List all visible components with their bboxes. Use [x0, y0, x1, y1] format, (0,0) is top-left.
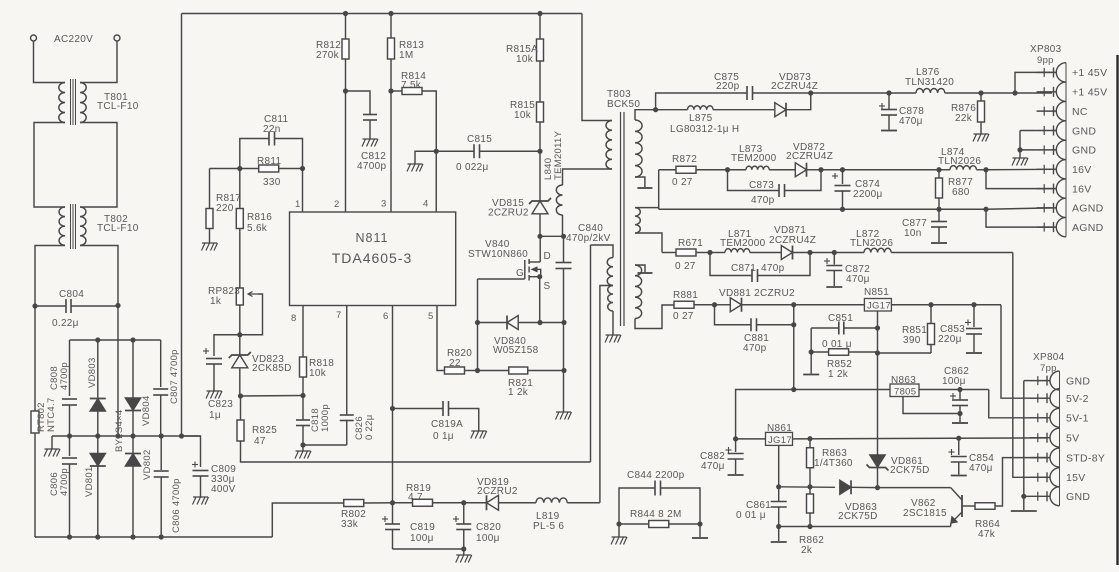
svg-text:LG80312-1μ H: LG80312-1μ H	[670, 124, 739, 135]
svg-text:C806 4700p: C806 4700p	[171, 478, 182, 533]
svg-text:3: 3	[381, 199, 387, 210]
15V rail	[810, 252, 864, 254]
wire AGND pin9	[986, 209, 1052, 227]
svg-text:L875: L875	[689, 113, 713, 124]
wire T801 right to T802	[80, 123, 117, 208]
resistor R802	[344, 500, 364, 507]
capacitor C878 electrolytic	[886, 90, 891, 95]
wire AGND pin8	[986, 208, 1052, 209]
capacitor C818	[302, 396, 304, 421]
diode VD861 zener	[870, 455, 886, 468]
svg-text:100μ: 100μ	[410, 533, 434, 544]
resistor R872	[659, 169, 676, 171]
capacitor C804	[35, 305, 66, 307]
svg-text:2k: 2k	[801, 545, 813, 556]
resistor R863	[809, 439, 811, 448]
svg-text:10k: 10k	[516, 54, 534, 65]
inductor L871	[710, 252, 725, 254]
capacitor C812	[346, 91, 371, 114]
node L874 right	[983, 167, 988, 172]
svg-text:JG17: JG17	[867, 301, 891, 312]
ground R844 right	[699, 524, 701, 537]
ground C820	[456, 555, 472, 563]
XP804 pin 3 5V-1	[1030, 417, 1050, 419]
svg-text:15V: 15V	[1066, 472, 1086, 484]
voltage regulator N861 JG17	[733, 436, 738, 441]
diode VD803	[97, 340, 99, 398]
capacitor C815	[436, 150, 474, 152]
wire XP804 GND bus	[1024, 380, 1030, 382]
svg-text:N851: N851	[864, 287, 889, 298]
secondary A top lead	[635, 110, 656, 120]
svg-text:JG17: JG17	[768, 435, 792, 446]
T803 feedback bottom ground	[612, 311, 614, 335]
capacitor C881 loop	[715, 305, 752, 325]
capacitor C861	[778, 487, 780, 502]
svg-text:C804: C804	[59, 289, 84, 300]
svg-text:TCL-F10: TCL-F10	[97, 223, 139, 234]
svg-text:TLN2026: TLN2026	[938, 156, 981, 167]
node R812 C812	[343, 88, 348, 93]
node C871 left	[707, 250, 712, 255]
wire AC left to T801	[34, 41, 66, 83]
svg-text:NTC4.7: NTC4.7	[46, 397, 57, 432]
XP803 body line	[1065, 63, 1067, 237]
inductor L819	[536, 498, 567, 503]
wire gate	[478, 278, 525, 280]
svg-text:2CZRU4Z: 2CZRU4Z	[769, 235, 816, 246]
node C875 VD873	[808, 90, 813, 95]
svg-text:2CK75D: 2CK75D	[890, 465, 930, 476]
inductor L873	[728, 169, 747, 171]
XP803 pin 7 16V	[1037, 188, 1057, 190]
svg-text:0 022μ: 0 022μ	[456, 162, 489, 173]
svg-text:470p: 470p	[751, 195, 775, 206]
diode VD873	[713, 109, 774, 111]
node C873 left	[725, 167, 730, 172]
svg-text:C851: C851	[828, 313, 853, 324]
svg-text:10k: 10k	[514, 110, 532, 121]
svg-text:C819: C819	[410, 522, 435, 533]
inductor L872	[864, 248, 891, 252]
resistor R852	[809, 349, 814, 354]
svg-text:6: 6	[383, 311, 389, 322]
svg-text:330: 330	[263, 177, 281, 188]
wire N861 output 5V rail	[793, 438, 1047, 439]
svg-text:2200μ: 2200μ	[853, 189, 883, 200]
svg-text:TEM2000: TEM2000	[720, 238, 766, 249]
svg-text:470p/2kV: 470p/2kV	[566, 233, 611, 244]
svg-text:GND: GND	[1066, 375, 1090, 387]
svg-text:AGND: AGND	[1072, 222, 1104, 234]
svg-text:4700p: 4700p	[59, 362, 70, 390]
ground C815 left	[415, 151, 436, 164]
node L840 C840	[561, 234, 566, 239]
potentiometer RP823	[239, 286, 241, 288]
secondary B bottom lead	[635, 233, 662, 253]
node VD871 out	[807, 250, 812, 255]
transformer T802 core	[70, 204, 72, 249]
svg-text:C815: C815	[467, 134, 492, 145]
wire to N851	[794, 304, 865, 306]
secondary C bottom lead	[635, 305, 674, 329]
B+ top rail	[182, 13, 583, 15]
resistor R815A	[539, 14, 541, 40]
svg-text:5V-2: 5V-2	[1066, 393, 1089, 405]
svg-text:XP803: XP803	[1030, 44, 1062, 55]
svg-text:1k: 1k	[210, 296, 222, 307]
resistor R876	[978, 90, 983, 95]
wire T802 left down to bridge	[35, 246, 65, 412]
wire pin8	[302, 306, 304, 358]
svg-text:1000p: 1000p	[320, 404, 331, 432]
resistor R815	[537, 102, 544, 122]
svg-text:100μ: 100μ	[476, 533, 500, 544]
svg-text:33k: 33k	[341, 519, 359, 530]
wire source node stub	[540, 322, 564, 324]
svg-text:22: 22	[449, 358, 461, 369]
ground R844 left	[618, 524, 620, 537]
capacitor C882 electrolytic	[735, 439, 737, 452]
resistor R816	[236, 209, 243, 229]
wire 5V-2 to XP804	[1001, 305, 1046, 398]
node R811 left	[237, 166, 242, 171]
svg-text:0 27: 0 27	[673, 311, 694, 322]
XP804 pin 7 GND	[1030, 495, 1050, 497]
svg-text:0 27: 0 27	[672, 177, 693, 188]
svg-text:C871: C871	[731, 263, 756, 274]
svg-text:470μ: 470μ	[846, 274, 870, 285]
svg-text:GND: GND	[1072, 145, 1096, 157]
capacitor C851	[811, 327, 839, 329]
resistor R818	[300, 357, 307, 377]
sense rail vertical	[590, 245, 592, 462]
svg-text:AC220V: AC220V	[54, 34, 93, 45]
capacitor C844	[619, 488, 655, 524]
XP803 pin 4 GND	[1037, 130, 1057, 132]
svg-text:G: G	[516, 268, 524, 279]
wire pin4	[435, 151, 437, 212]
XP803 pin 2 +1 45V	[1037, 91, 1057, 93]
capacitor C853 electrolytic	[973, 305, 975, 327]
wire pin1	[302, 169, 304, 213]
AC input terminal right	[114, 35, 120, 41]
node R820 R821	[475, 368, 480, 373]
XP804 pin 4 5V	[1030, 437, 1050, 439]
capacitor C872 electrolytic	[832, 250, 837, 255]
resistor R811	[259, 165, 279, 172]
capacitor C806	[69, 436, 71, 456]
resistor R862	[809, 487, 811, 494]
svg-text:5: 5	[428, 311, 434, 322]
svg-text:XP804: XP804	[1033, 352, 1065, 363]
node R815 C815	[537, 149, 542, 154]
svg-text:2CZRU2: 2CZRU2	[488, 208, 529, 219]
svg-text:VD881 2CZRU2: VD881 2CZRU2	[719, 288, 795, 299]
B+ riser wire	[181, 14, 183, 437]
wire N851 adj down	[877, 311, 879, 457]
inductor L875	[656, 109, 688, 111]
svg-text:BY2S4×4: BY2S4×4	[114, 409, 125, 452]
wire pin5 to R820	[437, 306, 445, 371]
node R813 R814	[388, 88, 393, 93]
node VD840 left	[475, 320, 480, 325]
node C820 top	[461, 500, 466, 505]
resistor R864	[962, 505, 975, 507]
transformer T803 primary winding top	[606, 121, 612, 169]
resistor R819	[393, 502, 413, 504]
wire N863 output	[919, 389, 989, 391]
node AGND pin8	[983, 207, 988, 212]
node pin4 C815	[434, 149, 439, 154]
XP803 pin 3 NC	[1037, 110, 1057, 112]
svg-text:2CZRU4Z: 2CZRU4Z	[786, 151, 833, 162]
resistor R877	[938, 170, 940, 178]
node R802 R819	[390, 500, 395, 505]
svg-text:9pp: 9pp	[1037, 55, 1054, 66]
svg-text:4 7: 4 7	[408, 492, 423, 503]
capacitor C823 electrolytic	[214, 335, 240, 356]
node C818 C826	[300, 442, 305, 447]
row VD863	[779, 486, 835, 489]
svg-text:470μ: 470μ	[899, 116, 923, 127]
wire C819 C820 bottom	[393, 548, 464, 550]
resistor R881	[674, 301, 694, 308]
capacitor C807	[160, 340, 162, 387]
transformer T803 feedback winding	[591, 245, 614, 258]
wire rail to XP803	[981, 92, 1015, 94]
node drain	[537, 234, 542, 239]
wire R817 to node	[210, 168, 240, 170]
wire T801 left to T802	[34, 123, 65, 208]
svg-text:470μ: 470μ	[701, 461, 725, 472]
resistor R814	[391, 90, 402, 92]
ground C840 line	[556, 412, 572, 420]
svg-text:0 01 μ: 0 01 μ	[736, 510, 766, 521]
svg-text:4: 4	[423, 199, 429, 210]
svg-text:10k: 10k	[309, 368, 327, 379]
svg-text:47k: 47k	[978, 529, 996, 540]
diode VD804	[132, 340, 134, 399]
svg-text:C807 4700p: C807 4700p	[169, 349, 180, 404]
svg-text:4700p: 4700p	[59, 468, 70, 496]
node VD872 out	[818, 167, 823, 172]
node R818 VD823	[300, 393, 305, 398]
svg-text:+1 45V: +1 45V	[1072, 87, 1107, 99]
capacitor C854 electrolytic	[958, 438, 960, 455]
svg-text:2CK85D: 2CK85D	[252, 363, 292, 374]
svg-text:5V: 5V	[1066, 433, 1079, 445]
svg-text:220: 220	[216, 203, 234, 214]
svg-text:470μ: 470μ	[969, 463, 993, 474]
svg-text:R844 8 2M: R844 8 2M	[630, 509, 682, 520]
svg-text:220p: 220p	[716, 81, 740, 92]
diode VD802	[132, 436, 134, 454]
svg-text:1: 1	[295, 199, 301, 210]
svg-text:390: 390	[903, 335, 921, 346]
ground C851 R852	[810, 328, 812, 374]
svg-text:STW10N860: STW10N860	[468, 249, 528, 260]
transformer T802 right winding	[80, 207, 86, 245]
XP804 body line	[1059, 371, 1061, 506]
wire regulator feed row	[791, 387, 796, 392]
resistor R844	[619, 523, 649, 525]
ground stub mid rail	[51, 436, 53, 449]
svg-text:N811: N811	[356, 231, 389, 245]
node RP823 VD823	[237, 332, 242, 337]
wire C818 C826 join	[303, 444, 347, 446]
svg-text:2: 2	[334, 199, 340, 210]
AGND rail	[659, 208, 986, 210]
wire N851 output	[891, 304, 1001, 306]
svg-text:TLN2026: TLN2026	[850, 238, 893, 249]
XP803 pin 9 AGND	[1037, 226, 1057, 228]
svg-text:0 22μ: 0 22μ	[364, 415, 375, 440]
svg-text:+1 45V: +1 45V	[1072, 67, 1107, 79]
diode VD823 zener	[239, 335, 241, 355]
svg-text:STD-8Y: STD-8Y	[1066, 452, 1105, 464]
AC input terminal left	[31, 35, 37, 41]
node R811 right	[300, 166, 305, 171]
wire to C808	[69, 340, 71, 396]
capacitor C875 branch	[656, 93, 747, 110]
capacitor C874 electrolytic	[840, 167, 845, 172]
node C804 left	[32, 303, 37, 308]
svg-text:0 27: 0 27	[675, 261, 696, 272]
wire GND bus XP803	[1020, 130, 1037, 132]
XP804 pin 5 STD-8Y	[1030, 457, 1050, 459]
op-amp U1 IC N811 TDA4605-3 box	[290, 212, 456, 306]
svg-text:10n: 10n	[904, 228, 922, 239]
RP823 wiper	[248, 292, 258, 297]
svg-text:VD802: VD802	[142, 449, 153, 480]
bridge top rail	[70, 339, 161, 341]
svg-text:270k: 270k	[316, 50, 340, 61]
resistor R851	[930, 305, 932, 324]
svg-text:D: D	[544, 251, 552, 262]
svg-text:2CK75D: 2CK75D	[838, 511, 878, 522]
svg-text:TDA4605-3: TDA4605-3	[332, 250, 413, 266]
transformer T803 core	[620, 112, 622, 326]
transformer T801 left winding	[59, 83, 65, 123]
wire +145V pin2	[1015, 92, 1052, 94]
secondary A bottom termination	[635, 177, 645, 187]
svg-text:22n: 22n	[263, 124, 281, 135]
wire R825 to sense rail	[241, 441, 591, 462]
svg-text:0 1μ: 0 1μ	[433, 431, 454, 442]
svg-text:400V: 400V	[211, 484, 236, 495]
transformer T803 secondary B	[635, 208, 640, 234]
XP804 pin 6 15V	[1030, 476, 1050, 478]
svg-text:470p: 470p	[761, 263, 785, 274]
svg-text:TCL-F10: TCL-F10	[97, 101, 139, 112]
wire R818 to VD823 node	[241, 395, 303, 398]
resistor R820	[445, 367, 465, 374]
transistor Q2 V862 2SC1815	[961, 495, 963, 517]
wire +145V pin1 jog	[1015, 72, 1052, 93]
svg-text:W05Z158: W05Z158	[493, 345, 539, 356]
capacitor C806 second	[160, 436, 162, 470]
svg-text:2SC1815: 2SC1815	[903, 508, 947, 519]
svg-text:47: 47	[254, 436, 266, 447]
wire T802 right down	[80, 246, 118, 437]
svg-text:C819A: C819A	[431, 419, 463, 430]
inductor L840	[563, 169, 613, 185]
XP803 pin 1 +1 45V	[1037, 71, 1057, 73]
svg-text:TEM2000: TEM2000	[731, 153, 777, 164]
svg-text:470p: 470p	[743, 343, 767, 354]
capacitor C826	[340, 414, 354, 416]
svg-text:R816: R816	[247, 212, 272, 223]
resistor R813	[390, 14, 392, 39]
svg-text:7: 7	[336, 310, 342, 321]
thermistor RT802	[31, 411, 39, 433]
svg-text:TEM2011Y: TEM2011Y	[553, 130, 564, 180]
wire AC right to T801	[80, 41, 117, 83]
svg-text:C873: C873	[749, 180, 774, 191]
diode VD801	[97, 436, 99, 455]
secondary C top termination	[635, 265, 645, 272]
wire 15V down to XP804	[1013, 253, 1046, 478]
XP804 pin 1 GND	[1030, 380, 1050, 382]
capacitor C840	[563, 236, 565, 262]
transformer T801 right winding	[80, 83, 86, 123]
16V rail	[821, 169, 939, 171]
svg-text:220μ: 220μ	[938, 334, 962, 345]
resistor R825	[240, 396, 242, 420]
wire N863 ground pin	[903, 397, 960, 414]
svg-text:1/4T360: 1/4T360	[814, 458, 853, 469]
node VD881 out	[791, 302, 796, 307]
wire bottom rail jog to R802 row	[272, 503, 343, 537]
node L874 left	[936, 167, 941, 172]
secondary B top lead	[635, 207, 659, 209]
wire B+ to T803 primary	[582, 14, 612, 121]
bridge bottom rail	[35, 536, 272, 538]
diode VD863	[840, 480, 851, 494]
svg-text:R811: R811	[257, 156, 282, 167]
svg-text:AGND: AGND	[1072, 203, 1104, 215]
resistor R817	[209, 169, 211, 209]
inductor L874	[939, 169, 950, 171]
capacitor C871 loop	[710, 253, 752, 276]
wire R864 to STD-8Y	[995, 458, 1046, 506]
wire 16V pin6	[986, 168, 1052, 170]
capacitor C877	[938, 209, 940, 221]
capacitor C819A	[393, 408, 444, 410]
svg-text:PL-5 6: PL-5 6	[533, 521, 564, 532]
diode VD872	[795, 163, 806, 177]
svg-text:2CZRU2: 2CZRU2	[477, 486, 518, 497]
node VD840 right	[537, 320, 542, 325]
wire R872 tap vertical	[658, 170, 660, 210]
svg-text:VD801: VD801	[84, 466, 95, 497]
ground C818	[302, 445, 304, 451]
+145V rail	[811, 92, 889, 94]
XP803 pin 5 GND	[1037, 149, 1057, 151]
svg-text:7805: 7805	[894, 387, 916, 398]
svg-text:5V-1: 5V-1	[1066, 413, 1089, 425]
svg-text:R825: R825	[252, 425, 277, 436]
resistor R812	[345, 14, 347, 40]
transformer T803 secondary C	[635, 265, 642, 319]
svg-text:4700p: 4700p	[357, 161, 386, 172]
transformer T803 secondary A	[635, 120, 642, 177]
wire 16V pin7	[986, 170, 1052, 189]
wire VD873 to rail	[786, 93, 811, 110]
svg-text:680: 680	[952, 187, 970, 198]
XP803 pin 6 16V	[1037, 168, 1057, 170]
